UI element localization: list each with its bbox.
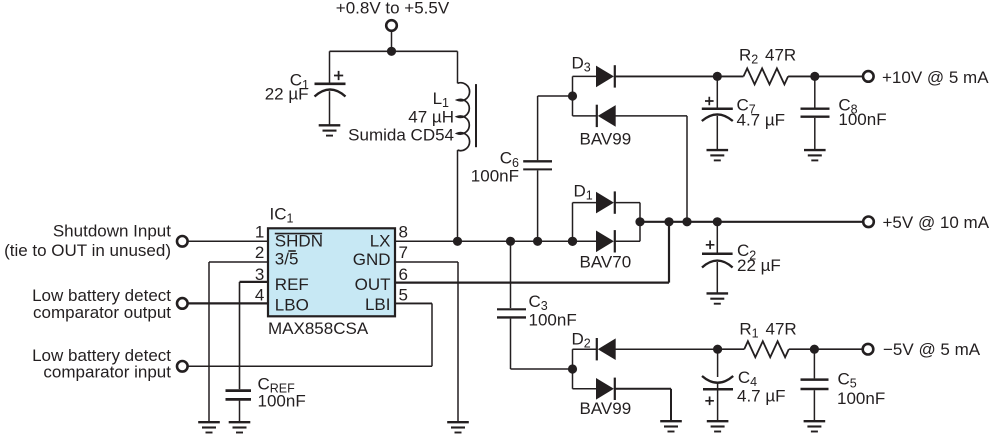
svg-text:6: 6 xyxy=(399,265,408,284)
svg-text:Shutdown Input: Shutdown Input xyxy=(53,222,171,241)
svg-text:100nF: 100nF xyxy=(258,392,306,411)
svg-text:100nF: 100nF xyxy=(837,389,885,408)
svg-text:100nF: 100nF xyxy=(471,166,519,185)
svg-text:D1: D1 xyxy=(574,182,593,203)
svg-text:D2: D2 xyxy=(572,329,591,350)
svg-text:D3: D3 xyxy=(572,54,591,75)
svg-text:100nF: 100nF xyxy=(529,311,577,330)
svg-text:4: 4 xyxy=(255,285,264,304)
svg-text:100nF: 100nF xyxy=(838,110,886,129)
svg-text:OUT: OUT xyxy=(355,275,391,294)
svg-text:3/5: 3/5 xyxy=(275,249,299,268)
svg-text:LBO: LBO xyxy=(275,296,309,315)
svg-text:MAX858CSA: MAX858CSA xyxy=(268,319,369,338)
svg-text:47 µH: 47 µH xyxy=(408,107,454,126)
svg-text:5: 5 xyxy=(399,285,408,304)
svg-text:BAV70: BAV70 xyxy=(580,253,632,272)
svg-text:22 µF: 22 µF xyxy=(737,256,781,275)
svg-text:+0.8V to +5.5V: +0.8V to +5.5V xyxy=(336,0,450,18)
svg-text:BAV99: BAV99 xyxy=(580,130,632,149)
svg-text:47R: 47R xyxy=(765,46,796,65)
svg-text:2: 2 xyxy=(255,243,264,262)
svg-text:(tie to OUT in unused): (tie to OUT in unused) xyxy=(4,241,171,260)
svg-text:4.7 µF: 4.7 µF xyxy=(737,110,786,129)
svg-text:Sumida CD54: Sumida CD54 xyxy=(348,126,454,145)
svg-text:LBI: LBI xyxy=(365,295,391,314)
svg-text:−5V @ 5 mA: −5V @ 5 mA xyxy=(883,340,981,359)
svg-text:R2: R2 xyxy=(739,46,758,67)
svg-text:R1: R1 xyxy=(739,319,758,340)
svg-text:47R: 47R xyxy=(766,319,797,338)
svg-text:+10V @ 5 mA: +10V @ 5 mA xyxy=(882,68,989,87)
svg-text:8: 8 xyxy=(399,223,408,242)
svg-text:Low battery detect: Low battery detect xyxy=(32,286,171,305)
svg-text:comparator output: comparator output xyxy=(33,303,171,322)
svg-text:GND: GND xyxy=(353,250,391,269)
svg-text:BAV99: BAV99 xyxy=(580,399,632,418)
svg-text:comparator input: comparator input xyxy=(43,363,171,382)
svg-text:4.7 µF: 4.7 µF xyxy=(737,387,786,406)
svg-text:IC1: IC1 xyxy=(270,204,294,225)
svg-text:7: 7 xyxy=(399,243,408,262)
svg-text:REF: REF xyxy=(275,275,309,294)
svg-text:+5V @ 10 mA: +5V @ 10 mA xyxy=(883,213,990,232)
svg-text:LX: LX xyxy=(370,232,391,251)
svg-text:C5: C5 xyxy=(838,370,857,391)
svg-text:22 µF: 22 µF xyxy=(265,84,309,103)
svg-text:1: 1 xyxy=(255,223,264,242)
